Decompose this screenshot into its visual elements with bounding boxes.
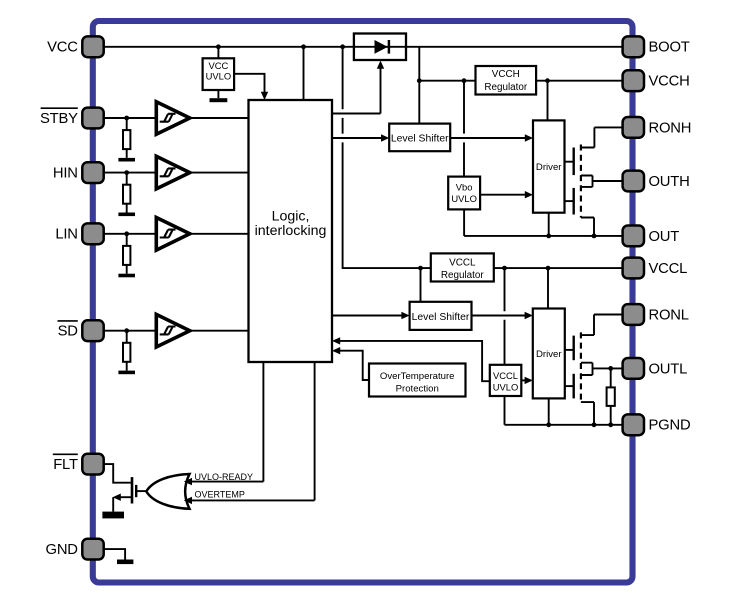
junction VCCL/VCCL-UVLO supply xyxy=(502,266,507,271)
svg-text:interlocking: interlocking xyxy=(255,223,327,239)
svg-text:Regulator: Regulator xyxy=(441,270,485,281)
wire VCCL UVLO to driver L xyxy=(521,379,525,381)
pin OUT xyxy=(623,226,644,247)
junction VCCH/level-shifter supply xyxy=(417,78,422,83)
pin STBY xyxy=(82,108,103,129)
overtemperature protection block xyxy=(369,364,466,397)
wire VCC UVLO feed xyxy=(217,47,219,59)
wire Vbo UVLO supply xyxy=(463,81,465,177)
junction VCC/VCCL-reg drop xyxy=(340,44,345,49)
OR gate FLT xyxy=(146,474,189,509)
logic block U1 xyxy=(249,100,333,362)
wire driver L bottom xyxy=(548,398,550,424)
wire driver H supply xyxy=(547,81,549,121)
wire UVLO-READY xyxy=(192,362,264,482)
svg-text:OUTH: OUTH xyxy=(649,174,690,190)
input row SD xyxy=(104,314,249,374)
VCC UVLO ground xyxy=(217,90,219,98)
svg-text:UVLO: UVLO xyxy=(206,70,232,81)
pin VCCH xyxy=(623,70,644,91)
FLT output transistor Q1 xyxy=(103,464,147,512)
driver H block xyxy=(533,120,565,212)
pin PGND xyxy=(623,414,644,435)
svg-text:RONH: RONH xyxy=(649,120,692,136)
diode D1 xyxy=(375,40,388,54)
wire level shifter H to driver H xyxy=(450,137,525,139)
ground xyxy=(118,213,135,217)
resistor on OUTL xyxy=(610,368,612,424)
pin RONH xyxy=(623,117,644,138)
svg-text:Protection: Protection xyxy=(396,384,439,395)
junction PGND/FET-L source xyxy=(592,422,597,427)
wire Vbo UVLO to driver H xyxy=(480,194,525,196)
VCCL Regulator block xyxy=(431,253,494,281)
svg-text:Level Shifter: Level Shifter xyxy=(391,134,449,145)
junction PGND/driver-L xyxy=(546,422,551,427)
pin OUTH xyxy=(623,171,644,192)
resistor R-HIN xyxy=(123,185,130,204)
junction PGND/resistor xyxy=(608,422,613,427)
pin BOOT xyxy=(623,36,644,57)
svg-text:Level Shifter: Level Shifter xyxy=(412,312,470,323)
svg-text:UVLO: UVLO xyxy=(451,193,477,204)
VCCH Regulator block xyxy=(476,66,537,95)
junction VCC/logic xyxy=(301,44,306,49)
output MOSFET L xyxy=(565,315,623,425)
svg-text:Driver: Driver xyxy=(536,349,562,360)
bootstrap diode box xyxy=(354,34,406,61)
junction OUT/driver-H xyxy=(546,234,551,239)
svg-text:SD: SD xyxy=(58,324,78,340)
wire driver L supply xyxy=(547,268,549,308)
Vbo UVLO block xyxy=(448,177,480,210)
schmitt trigger LIN xyxy=(156,218,190,251)
svg-text:Driver: Driver xyxy=(536,162,562,173)
wire level shifter L to driver L xyxy=(472,315,526,317)
pin GND xyxy=(82,539,103,560)
wire OUT net xyxy=(464,235,622,237)
wire through diode box xyxy=(354,46,406,48)
wire OVERTEMP xyxy=(192,362,315,500)
pin RONL xyxy=(623,304,644,325)
ground FLT xyxy=(102,512,124,519)
level shifter H block xyxy=(389,124,450,152)
svg-text:STBY: STBY xyxy=(40,111,78,127)
wire VCCL UVLO supply xyxy=(504,268,506,365)
svg-text:VCCH: VCCH xyxy=(492,69,520,80)
junction VCCH/Vbo-UVLO supply xyxy=(462,78,467,83)
svg-text:FLT: FLT xyxy=(53,457,78,473)
svg-text:RONL: RONL xyxy=(649,307,689,323)
wire VCCH net xyxy=(419,80,622,82)
svg-text:UVLO: UVLO xyxy=(493,381,519,392)
arrow UVLO-READY input xyxy=(184,478,192,485)
resistor R-SD xyxy=(123,343,130,362)
driver L block xyxy=(533,309,565,399)
pin FLT xyxy=(82,454,103,475)
svg-text:VCCL: VCCL xyxy=(649,261,688,277)
junction VCC/UVLO xyxy=(216,44,221,49)
pin HIN xyxy=(82,162,103,183)
wire VCCL UVLO to PGND xyxy=(504,396,506,425)
VCCL UVLO block xyxy=(490,365,522,396)
VCC UVLO block xyxy=(203,58,235,90)
arrow OVERTEMP input xyxy=(184,497,192,504)
wire BOOT to level shifter supply xyxy=(418,47,420,124)
ground xyxy=(118,274,135,278)
junction VCCH/driver-H supply xyxy=(545,78,550,83)
input row HIN xyxy=(104,156,249,216)
wire overtemp block to logic xyxy=(340,351,370,380)
wire logic to level shifter H xyxy=(332,137,382,139)
wire logic to bootstrap diode xyxy=(332,68,381,114)
level shifter L block xyxy=(410,302,472,330)
svg-text:OUTL: OUTL xyxy=(649,361,688,377)
svg-text:Vbo: Vbo xyxy=(456,182,473,193)
ground xyxy=(118,158,135,162)
arrow into diode box xyxy=(377,61,384,69)
wire PGND net xyxy=(505,424,623,426)
GND ground symbol xyxy=(103,549,125,559)
pin OUTL xyxy=(623,358,644,379)
pin LIN xyxy=(82,223,103,244)
svg-text:HIN: HIN xyxy=(53,166,78,182)
svg-text:UVLO-READY: UVLO-READY xyxy=(195,472,254,482)
svg-text:VCCH: VCCH xyxy=(649,74,690,90)
svg-text:LIN: LIN xyxy=(55,227,77,243)
wire VCC/BOOT net xyxy=(104,46,623,48)
wire driver H bottom xyxy=(548,213,550,236)
svg-text:OVERTEMP: OVERTEMP xyxy=(195,490,245,500)
pin SD xyxy=(82,320,103,341)
pin VCCL xyxy=(623,258,644,279)
svg-text:OverTemperature: OverTemperature xyxy=(380,371,455,382)
input row LIN xyxy=(104,218,249,278)
junction VCCL/level-shifter-L supply xyxy=(418,266,423,271)
wire VCCL UVLO to logic xyxy=(340,341,490,381)
wire VCC UVLO to logic xyxy=(234,74,264,92)
schmitt trigger HIN xyxy=(156,156,190,189)
schmitt trigger SD xyxy=(156,314,190,347)
output MOSFET H xyxy=(565,127,623,235)
svg-text:OUT: OUT xyxy=(649,229,680,245)
svg-text:VCCL: VCCL xyxy=(493,370,518,381)
svg-text:BOOT: BOOT xyxy=(649,40,690,56)
junction VCCL/driver-L supply xyxy=(546,266,551,271)
ground xyxy=(118,371,135,375)
wire logic top supply xyxy=(303,47,305,100)
svg-text:VCCL: VCCL xyxy=(449,257,476,268)
wire logic to level shifter L xyxy=(332,315,403,317)
junction OUT/FET-H source xyxy=(592,234,597,239)
svg-text:PGND: PGND xyxy=(649,418,691,434)
schmitt trigger STBY xyxy=(156,102,190,135)
wire Vbo UVLO to OUT xyxy=(463,209,465,236)
resistor R-STBY xyxy=(123,130,130,149)
wire VCCL net xyxy=(494,267,623,269)
IC boundary xyxy=(93,21,633,583)
pin VCC xyxy=(82,36,103,57)
wire level shifter L supply xyxy=(420,268,422,302)
wire VCC supply drop to VCCL regulator xyxy=(343,47,431,268)
svg-text:Regulator: Regulator xyxy=(484,82,528,93)
input row STBY xyxy=(104,102,249,162)
svg-text:VCC: VCC xyxy=(47,40,78,56)
svg-text:GND: GND xyxy=(46,542,78,558)
junction OUTL/resistor xyxy=(608,366,613,371)
resistor R-LIN xyxy=(123,246,130,265)
